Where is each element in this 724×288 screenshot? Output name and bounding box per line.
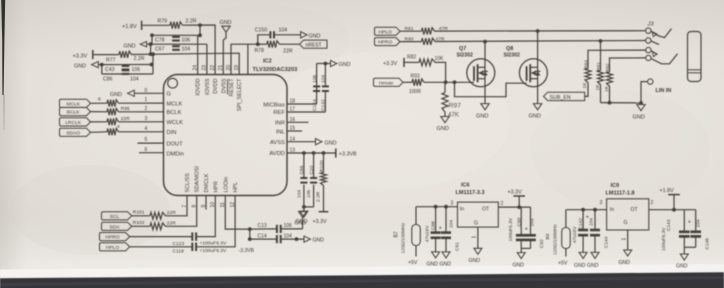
svg-text:GND: GND [476,114,488,120]
bright paper bottom edge [0,264,724,288]
wire HPLO to jack tip [435,30,646,32]
gnd below C143/C146 [684,246,695,248]
net flag HPRO right section [375,38,401,46]
capacitor C143 100uF/6.3V [683,210,685,232]
wire INL pin 15 stub [287,130,302,132]
svg-text:R92: R92 [605,63,611,72]
svg-text:+5V: +5V [558,261,568,267]
wire Q7 source to gnd [484,79,486,104]
svg-text:C92: C92 [539,239,545,248]
jack pin circle switch a [646,47,651,52]
svg-text:C90: C90 [516,217,522,226]
capacitor C146 104 [695,210,697,232]
net flag HPRO [100,233,130,241]
resistor R93 100R [403,81,412,83]
svg-text:INL: INL [276,129,285,135]
svg-text:+3.3V: +3.3V [383,61,398,67]
svg-text:13: 13 [290,148,296,154]
wire gnd rail B [147,43,207,45]
svg-text:2: 2 [501,201,504,207]
svg-text:15: 15 [290,126,296,132]
regulator IC6 LM1117-3.3 body [458,202,499,227]
wire +3.3V rail continues to IC pin 19 [132,53,240,74]
net flag LRCLK [60,118,91,126]
svg-text:SUB_EN: SUB_EN [550,95,571,101]
pin 9 stub [205,196,207,210]
wire +1.8V rail [142,24,170,26]
net flag MCLK [60,99,91,107]
wire Q8 source to gnd [537,79,539,104]
wire IC pin 11 to C13/C14 [225,196,250,230]
wire HPLO row [130,246,192,248]
IC9 pin3 input wire [566,209,607,211]
svg-text:LIN IN: LIN IN [656,88,672,94]
gnd arrow below C144 [591,252,599,258]
svg-text:+1.8V: +1.8V [660,188,675,194]
IC6 gnd pin 1 [477,227,479,248]
svg-text:+100uF6.3V: +100uF6.3V [200,248,228,254]
svg-text:LM1117-3.3: LM1117-3.3 [456,190,485,196]
svg-text:IC6: IC6 [461,182,470,188]
svg-text:104: 104 [182,47,191,53]
svg-text:106: 106 [284,223,293,229]
svg-text:OT: OT [482,206,490,212]
svg-text:22: 22 [210,65,216,71]
net flag BCLK [60,108,91,116]
svg-text:R79: R79 [158,18,168,24]
svg-text:GND: GND [676,264,688,270]
svg-text:C118: C118 [173,248,185,254]
wire gate node to Q7 gate [424,81,474,83]
svg-text:104: 104 [130,76,139,82]
svg-text:In: In [610,207,614,213]
IC9 pin2 output wire [649,209,696,211]
wire cap tops to gnd [317,63,326,65]
svg-text:C13: C13 [258,223,267,229]
svg-text:104: 104 [321,75,327,83]
capacitor C14 104 [276,235,278,243]
svg-text:GND: GND [633,115,645,121]
svg-text:GND: GND [325,140,337,146]
svg-text:GND: GND [529,114,541,120]
gnd arrow up from C13 [302,217,304,229]
svg-text:OT: OT [631,207,639,213]
svg-text:DVSS: DVSS [221,78,227,93]
wire rail A [152,25,200,44]
resistor R79 2.2R [170,22,183,29]
svg-text:Q8: Q8 [506,46,513,52]
svg-text:3: 3 [145,116,148,122]
capacitor C13 106 [276,225,278,233]
svg-text:2.2R: 2.2R [186,18,197,24]
resistor R100 2.2R on AVDD [323,153,325,173]
IC9 gnd pin 1 [627,230,629,250]
wire extra pin riser [247,44,249,74]
net flag nREST [300,40,328,48]
svg-text:47u16V: 47u16V [572,226,578,243]
svg-text:24: 24 [193,65,199,71]
svg-text:100uF6.3V: 100uF6.3V [508,217,514,241]
svg-text:+1.8V: +1.8V [122,24,137,30]
svg-text:IC2: IC2 [263,58,272,64]
power flag +3.3VB on AVDD [335,148,337,157]
svg-text:104: 104 [696,219,702,227]
svg-text:4: 4 [145,126,148,132]
svg-text:SI2302: SI2302 [504,53,521,59]
svg-text:GND: GND [574,263,586,269]
svg-text:GND: GND [220,20,232,26]
svg-text:+3.3V: +3.3V [508,190,523,196]
svg-text:REF: REF [273,110,285,116]
net flag Hmute [374,78,404,86]
jack pin circle tip [646,28,651,33]
svg-text:1: 1 [145,97,148,103]
power flag +1.8V at IC9 output [673,195,675,210]
resistor R92 1K [610,58,646,72]
svg-text:1: 1 [621,238,627,241]
ferrite bead B7 120ohm/100MHz [415,207,417,225]
svg-text:1K: 1K [582,82,588,89]
svg-text:GND: GND [427,262,439,268]
svg-text:0: 0 [145,88,148,94]
svg-text:R100: R100 [319,160,325,172]
gnd below C90/C92 [521,247,530,249]
svg-text:R91: R91 [596,62,602,71]
jack tip switch contact [651,29,671,38]
capacitor C86 104 [122,69,130,71]
wire gnd to IC pin 21 [223,32,226,74]
svg-text:104: 104 [296,190,302,198]
svg-text:LM1117-1.8: LM1117-1.8 [606,191,635,197]
wire R82 to gate node [435,62,446,82]
svg-text:C43: C43 [105,67,115,73]
svg-text:MCLK: MCLK [167,101,183,107]
gnd arrow below C66/C20 [303,207,305,211]
svg-text:2.2R: 2.2R [316,191,322,202]
svg-text:R81: R81 [405,26,414,32]
wire MCLK row with series resistor [91,102,108,104]
svg-text:22R: 22R [283,48,293,54]
svg-text:GND: GND [308,34,320,40]
svg-text:GND: GND [313,238,325,244]
svg-text:10K: 10K [435,56,445,62]
svg-text:22R: 22R [121,116,130,122]
wire C13 row [248,227,252,231]
wire C123 to IC pin 10 [197,196,216,237]
wire IC pin 20 RESET riser [231,44,258,74]
resistor R101 22R [132,215,150,217]
svg-text:2: 2 [651,200,654,206]
capacitor C78 106 [172,36,180,38]
pin-1 indicator circle [168,78,178,88]
svg-text:GND: GND [619,260,631,266]
svg-text:R78: R78 [255,48,265,54]
resistor R80 47R [400,41,422,43]
svg-text:+3.3V: +3.3V [313,219,328,225]
svg-text:+: + [688,219,691,225]
svg-text:100R: 100R [409,89,421,95]
svg-text:LRCLK: LRCLK [65,120,82,126]
svg-text:AVDD: AVDD [269,151,284,157]
svg-text:DMCLK: DMCLK [204,173,210,192]
svg-text:HPLO: HPLO [379,29,393,35]
capacitor C91 104 [445,207,447,233]
svg-text:22R: 22R [167,221,176,227]
svg-text:106: 106 [182,37,191,43]
svg-text:nREST: nREST [306,43,322,49]
wire C118 to IC pin 12 [197,196,236,247]
resistor R82 10K [404,61,419,63]
svg-text:GND: GND [469,258,481,264]
regulator IC9 LM1117-1.8 body [607,199,649,230]
svg-text:2.2R: 2.2R [134,56,145,62]
net flag SUB_EN [544,92,585,100]
wire SDA to IC pin 8 [166,196,197,227]
wire +3.3V rail [93,54,119,56]
svg-text:SCL/SS: SCL/SS [185,173,191,193]
RESET overbar [227,79,229,95]
capacitor C132 104 [324,91,326,112]
capacitor C142 47uF/16V [582,210,584,230]
svg-text:R82: R82 [407,55,416,61]
svg-text:C86: C86 [103,76,113,82]
svg-text:19: 19 [234,65,240,71]
svg-text:3: 3 [600,200,603,206]
svg-text:1K: 1K [604,85,610,92]
resistor R78 22R [258,43,267,45]
wire IC pin 23 to gnd rail [206,44,208,74]
svg-text:GND: GND [437,126,449,132]
svg-text:G: G [474,221,478,227]
svg-text:R77: R77 [106,57,116,63]
ferrite bead 120ohm/100MHz input IC9 [565,210,567,228]
IC6 pin2 output wire [498,206,530,208]
svg-text:106: 106 [306,190,312,198]
svg-text:23: 23 [202,65,208,71]
svg-text:GND: GND [440,262,452,268]
svg-text:G: G [167,92,171,98]
gnd arrow right of C150 [301,32,307,38]
svg-text:47u16V: 47u16V [425,225,431,242]
power flag +3.3V at IC6 output [518,196,520,207]
svg-text:Hmute: Hmute [379,80,394,86]
svg-text:14: 14 [290,136,296,142]
svg-text:HPRO: HPRO [378,40,392,46]
capacitor C90 100uF/6.3V [520,207,522,235]
gnd arrow below C91 [442,252,450,258]
svg-text:1K: 1K [595,84,601,91]
net flag SDA [102,222,132,230]
svg-text:GND: GND [124,44,136,50]
wire Q8 drain to HPLO line [537,31,539,67]
pin 5 DOUT stub [138,142,164,144]
svg-text:C66: C66 [299,165,305,174]
svg-text:8: 8 [98,96,101,102]
svg-text:120Ω/100MHz: 120Ω/100MHz [401,222,407,253]
wire +1.8V rail to IC pin 22 [183,25,216,75]
svg-text:C132: C132 [321,99,327,111]
resistor R84 1K [585,69,591,83]
resistor R81 47R [400,30,422,32]
svg-text:104: 104 [589,218,595,226]
wire MICBias pin 18 [287,103,317,105]
svg-text:17: 17 [290,107,296,113]
svg-text:20: 20 [226,65,232,71]
wire SUB_EN to R84 bottom [585,83,588,97]
svg-text:2: 2 [145,106,148,112]
svg-text:C78: C78 [155,37,165,43]
capacitor C66 104 on AVDD [303,153,305,178]
svg-text:C67: C67 [155,47,165,53]
gnd arrow right of C14 [304,236,310,242]
capacitor C144 104 [594,210,596,230]
capacitor C92 104 [530,207,532,235]
svg-text:1: 1 [472,236,478,239]
svg-text:R101: R101 [133,210,145,216]
net flag HPLO right section [375,27,401,35]
wire HPRO to jack ring [435,41,646,42]
capacitor C43 106 [122,65,130,67]
svg-text:TLV320DAC3203: TLV320DAC3203 [253,67,298,73]
svg-text:BCLK: BCLK [167,110,182,116]
svg-text:22R: 22R [167,210,176,216]
svg-text:C88: C88 [431,221,437,230]
connector J3 jack body [688,32,702,82]
svg-text:SI2302: SI2302 [457,53,474,59]
wire HPRO row [130,236,192,238]
gnd arrow jack area [640,103,642,105]
svg-text:3: 3 [451,201,454,207]
svg-text:DIN: DIN [167,130,177,136]
svg-text:R80: R80 [405,37,414,43]
wire AVDD pin 13 [287,152,336,154]
svg-text:LOOin: LOOin [223,177,229,193]
svg-text:21: 21 [218,65,224,71]
svg-text:C20: C20 [309,165,315,174]
wire INR pin 16 stub [287,121,309,123]
svg-text:106: 106 [132,67,141,73]
svg-text:IOVDD: IOVDD [196,78,202,95]
wire gate detour to Q8 [455,82,527,96]
svg-text:J3: J3 [647,22,655,28]
capacitor C67 104 [172,45,180,47]
svg-text:HPL: HPL [233,182,239,193]
jack switch b contact [651,54,677,64]
jack pin circle sleeve [648,79,653,84]
svg-text:120Ω/100MHz: 120Ω/100MHz [553,224,559,255]
svg-text:DMDin: DMDin [167,151,184,157]
resistor R97 47K pulldown [444,82,446,92]
net flag SDAO [60,128,91,136]
jack switch a contact [651,51,657,55]
wire LRCLK row with series resistor [91,121,108,123]
dark object edge top-left [1,0,5,95]
svg-text:104: 104 [449,220,455,228]
jack pin circle switch b [646,55,651,60]
dark table band bottom [0,272,724,288]
svg-text:+5V: +5V [408,260,418,266]
svg-text:C91: C91 [455,242,461,251]
capacitor C20 106 on AVDD [313,153,315,178]
svg-text:R102: R102 [133,220,145,226]
gnd arrow below C88 [432,252,440,258]
wire jack sleeve to gnd rail [641,82,648,103]
wire C13-C14 left vertical [249,229,251,239]
svg-text:C124: C124 [312,99,318,111]
IC6 pin3 input wire [416,206,458,208]
svg-text:DOUT: DOUT [167,142,184,148]
resistor R77 2.2R [119,51,132,58]
svg-text:16: 16 [290,117,296,123]
resistor R91 1K [600,41,602,71]
transistor Q7 SI2302 [467,59,495,87]
capacitor C118 100uF 6.3V [191,243,193,251]
svg-text:+3.3V: +3.3V [73,53,88,59]
svg-text:C146: C146 [705,238,711,250]
svg-text:G: G [624,220,628,226]
wire REF pin 17 [287,111,325,113]
svg-text:MCLK: MCLK [66,101,80,107]
svg-text:GND: GND [74,63,86,69]
svg-text:SDAO: SDAO [66,130,80,136]
svg-text:INR: INR [275,121,285,127]
svg-text:DVDD: DVDD [213,78,219,93]
svg-text:+: + [525,227,528,233]
svg-text:R95: R95 [121,106,130,112]
wire AVSS pin 14 to gnd [287,141,316,143]
svg-text:SPI_SELECT: SPI_SELECT [237,78,243,111]
resistor R102 22R [132,225,150,227]
capacitor C88 47uF/16V [435,207,437,233]
svg-text:MICBias: MICBias [263,102,285,108]
gnd arrow below R97 [441,117,449,123]
svg-text:C143: C143 [666,219,672,231]
wire Q7 drain to HPRO line [484,42,486,68]
svg-text:HPLO: HPLO [106,245,120,251]
wire C14 row [250,238,277,240]
transistor Q8 SI2302 [519,59,547,87]
svg-text:106: 106 [312,75,318,83]
svg-text:C150: C150 [255,28,268,34]
svg-text:SDA: SDA [109,224,120,230]
wire SCL to IC pin 7 [166,196,188,216]
wire junction down to +3.3V rail [150,44,152,54]
svg-text:R93: R93 [411,73,420,79]
soft paper blotches [10,165,170,255]
gnd arrow right of caps [331,60,337,66]
svg-text:AVSS: AVSS [270,140,285,146]
net flag SCL [102,212,132,220]
svg-text:RESET: RESET [229,78,235,97]
svg-text:+3.3VB: +3.3VB [339,151,357,157]
svg-text:-3.3VB: -3.3VB [239,248,255,254]
svg-text:+: + [439,225,442,231]
svg-text:C144: C144 [604,236,610,248]
capacitor C124 106 [316,86,318,104]
capacitor C123 100uF 6.3V [191,232,193,240]
power bar +3.3V below R100 [319,211,329,213]
svg-text:GND: GND [110,92,122,98]
jack ring contact stub [651,41,659,45]
gnd arrow below C142 [579,252,587,258]
svg-text:+100uF6.3V: +100uF6.3V [200,241,228,247]
svg-text:SDA/MOSI: SDA/MOSI [195,166,201,192]
capacitor C150 104 [258,35,270,44]
svg-text:IC9: IC9 [611,183,620,189]
svg-text:5: 5 [145,137,148,143]
wire +3.3V drop to lower rails [152,54,154,74]
svg-text:HPRO: HPRO [105,235,119,241]
